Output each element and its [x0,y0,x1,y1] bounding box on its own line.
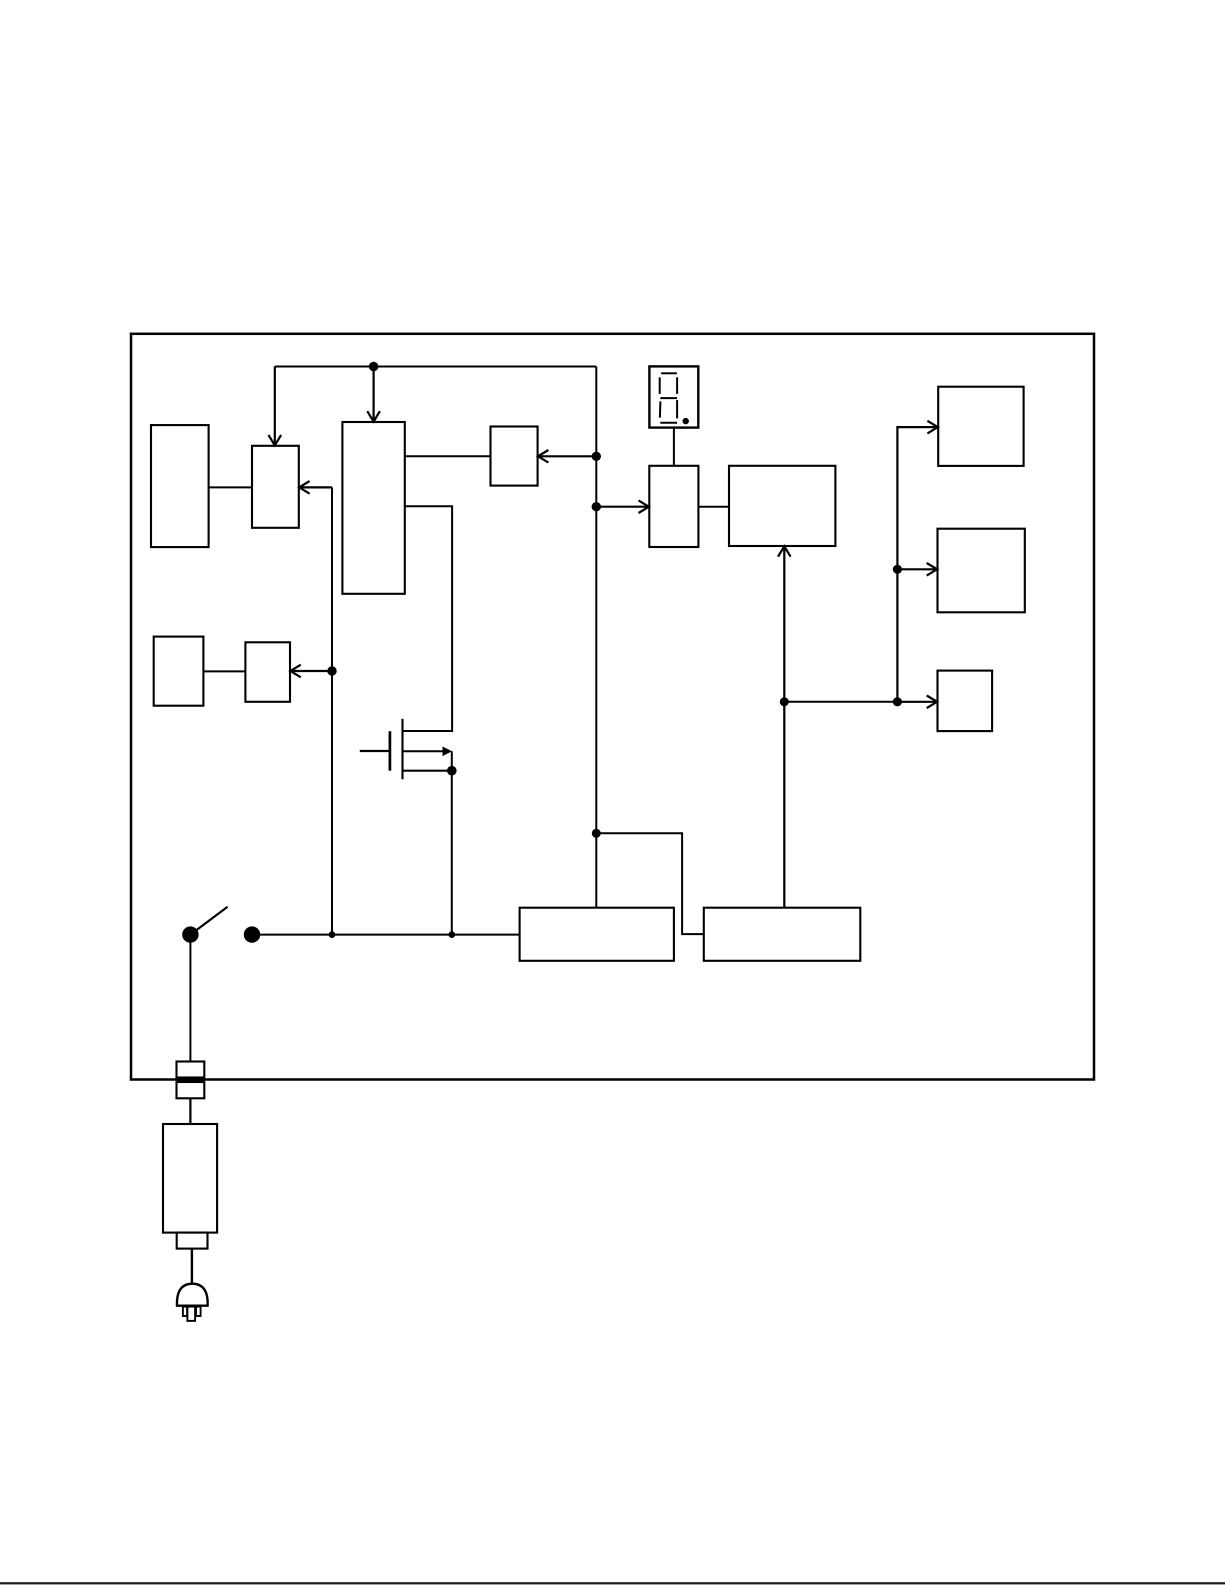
wire arrow into U13 right [290,665,332,678]
block U2 [252,446,299,528]
wire center vertical bus [595,367,597,908]
junction [592,502,601,511]
block U4 [491,427,538,486]
block U11 [704,908,861,961]
block U5 [649,466,698,547]
junction [369,362,379,372]
block U12 [154,637,204,706]
wire arrow into U2 top [269,367,282,446]
wire Q1 source to rail [451,771,453,935]
transistor Q1 MOSFET [360,719,452,780]
junction [893,697,902,706]
wire adapter to plug [191,1249,193,1284]
wire arrow into U2 right [299,481,332,494]
wire U3 to U4 [405,455,491,457]
junction [592,829,601,838]
block U7 [938,387,1023,466]
wire U5 to U6 [698,506,729,508]
switch S1 [182,907,260,943]
block U9 [938,671,993,732]
wire DS1 to U5 [673,428,675,466]
wire S1 to connector J1 [189,935,191,1062]
wire arrow into U3 top [367,367,380,422]
junction [780,697,789,706]
junction [592,452,601,461]
block U13 [245,642,290,702]
connector J1 [177,1062,205,1099]
wire power rail [252,934,520,936]
wire U12 to U13 [203,670,245,672]
junction [448,931,455,938]
junction [893,565,902,574]
block U10 [520,908,674,961]
wire U11 to U6 arrow up [778,546,791,907]
wire arrow into U8 left [897,563,937,576]
wire right vertical bus with arrow into U7 [897,421,937,702]
block U3 [342,422,404,594]
block U1 [151,425,209,547]
power plug P1 [177,1284,208,1321]
AC adapter PS1 [163,1124,217,1249]
wire U3 to Q1 drain [403,506,453,731]
wire branch to right bus [784,701,897,703]
7-segment display DS1 [649,366,698,427]
wire arrow into U9 left [897,696,937,709]
block U8 [938,529,1025,613]
wire bus branch to U11 [596,833,704,934]
wire arrow into U5 left [596,500,649,513]
enclosure boundary [131,334,1094,1080]
wire left vertical bus [331,487,333,934]
junction [447,766,457,776]
wire U1 to U2 [209,486,252,488]
wire top feedback rail [275,366,597,368]
wire J1 to AC adapter [189,1098,191,1124]
junction [327,666,336,675]
wire arrow into U4 right [538,450,596,463]
block U6 [729,466,835,546]
junction [329,931,336,938]
